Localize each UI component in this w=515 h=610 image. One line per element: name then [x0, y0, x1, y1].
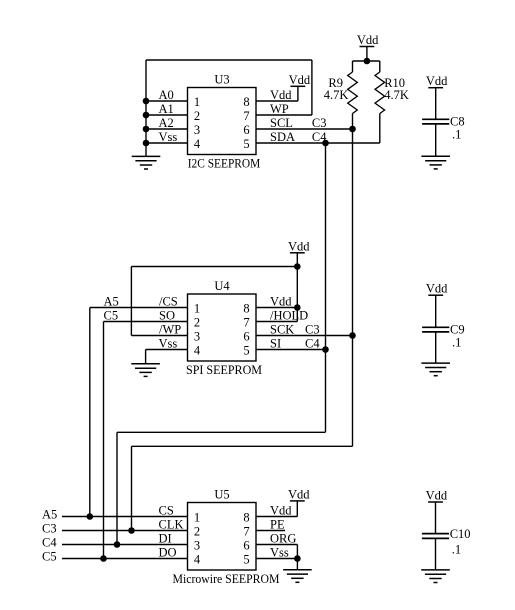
junction CS/A5 [87, 513, 94, 520]
svg-text:ORG: ORG [270, 532, 296, 546]
svg-text:DO: DO [159, 546, 177, 560]
svg-text:Vdd: Vdd [270, 504, 292, 518]
svg-text:SPI SEEPROM: SPI SEEPROM [186, 363, 262, 377]
power Vdd U3 [289, 73, 311, 87]
svg-text:SDA: SDA [270, 130, 295, 144]
svg-text:7: 7 [243, 109, 249, 123]
svg-text:Vdd: Vdd [288, 487, 310, 501]
svg-text:SI: SI [270, 337, 281, 351]
ground C10 [421, 570, 450, 583]
svg-text:WP: WP [270, 102, 289, 116]
wire C9 top lead [435, 295, 437, 327]
svg-text:A5: A5 [104, 295, 119, 309]
svg-text:Vdd: Vdd [270, 295, 292, 309]
junction DI/C4 [114, 541, 121, 548]
svg-text:2: 2 [194, 109, 200, 123]
ground C8 [421, 156, 450, 169]
svg-text:U4: U4 [214, 279, 230, 293]
svg-text:C5: C5 [104, 309, 119, 323]
svg-text:SO: SO [159, 309, 175, 323]
svg-text:I2C SEEPROM: I2C SEEPROM [188, 157, 261, 171]
wire C8 bottom lead [435, 124, 437, 156]
wire net C5 vertical [103, 322, 105, 559]
svg-text:8: 8 [243, 95, 249, 109]
wire U5 pin3 DI net C4 [62, 544, 188, 546]
svg-text:DI: DI [159, 532, 172, 546]
svg-text:Vdd: Vdd [426, 74, 448, 88]
svg-text:Microwire SEEPROM: Microwire SEEPROM [173, 572, 280, 586]
wire U4 pin2 SO net C5 [104, 321, 188, 323]
svg-text:Vdd: Vdd [357, 33, 379, 47]
svg-text:1: 1 [194, 95, 200, 109]
svg-text:7: 7 [243, 316, 249, 330]
resistor R10 bottom lead [379, 114, 381, 144]
svg-text:A0: A0 [159, 88, 174, 102]
power Vdd U4 [288, 239, 310, 253]
wire U3 pin2 A1 [146, 114, 188, 116]
wire /WP vertical [130, 267, 132, 336]
svg-text:3: 3 [194, 123, 200, 137]
junction SI/C4 bus [322, 346, 329, 353]
svg-text:8: 8 [243, 302, 249, 316]
svg-text:1: 1 [194, 511, 200, 525]
svg-text:Vdd: Vdd [426, 489, 448, 503]
svg-text:6: 6 [243, 330, 249, 344]
wire U4 pin4 Vss [146, 349, 188, 351]
wire U5 pin4 DO net C5 [62, 558, 188, 560]
svg-text:SCL: SCL [270, 116, 293, 130]
svg-text:Vss: Vss [159, 337, 178, 351]
svg-text:U5: U5 [214, 488, 229, 502]
junction SCK/C3 bus [349, 332, 356, 339]
svg-text:C3: C3 [305, 323, 320, 337]
svg-text:C3: C3 [42, 522, 57, 536]
wire U4 Vss down [145, 350, 147, 364]
svg-text:Vss: Vss [159, 130, 178, 144]
wire resistor top rail [353, 60, 380, 62]
svg-text:/WP: /WP [159, 323, 181, 337]
wire net C3 vertical to U5 [131, 446, 133, 530]
ground U3 [132, 156, 161, 169]
junction CLK/C3 [128, 527, 135, 534]
wire Vdd stem resistors [366, 47, 368, 62]
svg-text:3: 3 [194, 330, 200, 344]
wire U4 pin1 /CS net A5 [90, 307, 188, 309]
wire C10 top lead [435, 502, 437, 534]
wire WP net right vertical [311, 60, 313, 115]
power Vdd C10 [426, 489, 448, 503]
junction A0/bus [143, 98, 150, 105]
svg-text:.1: .1 [452, 543, 461, 557]
U3 chip body [188, 88, 257, 155]
wire U5 pin1 CS net A5 [62, 516, 188, 518]
junction SCL/R9 [349, 126, 356, 133]
svg-text:3: 3 [194, 539, 200, 553]
junction Vdd rail [294, 263, 301, 270]
wire U4 pin8 Vdd [256, 307, 297, 309]
svg-text:5: 5 [243, 553, 249, 567]
svg-text:C10: C10 [450, 527, 471, 541]
wire U5 pin8 Vdd [256, 516, 297, 518]
wire U3 pin5 SDA / net C4 [256, 142, 380, 144]
node bus: U3 left ground bus [145, 60, 147, 144]
wire U4 pin3 /WP [131, 335, 187, 337]
wire U3 pin3 A2 [146, 128, 188, 130]
wire net A5 vertical [89, 308, 91, 517]
wire U3 pin7 WP [256, 114, 312, 116]
svg-text:A5: A5 [42, 508, 57, 522]
wire C8 top lead [435, 88, 437, 120]
wire Vdd stem U4 down to pin7 [296, 253, 298, 322]
svg-text:4: 4 [194, 344, 201, 358]
power Vdd resistors [357, 33, 379, 47]
wire U3 pin8 Vdd [256, 100, 298, 102]
wire Vdd stem U3 [297, 86, 299, 101]
wire U3 pin4 Vss [146, 142, 188, 144]
svg-text:C4: C4 [305, 337, 320, 351]
svg-text:1: 1 [194, 302, 200, 316]
ground C9 [421, 363, 450, 376]
wire Vdd stem U5 [296, 501, 298, 517]
wire net C4 horizontal jog [117, 431, 326, 433]
svg-text:4.7K: 4.7K [384, 88, 409, 102]
wire U4 pin5 SI net C4 [256, 349, 326, 351]
wire U5 pin5 Vss [256, 558, 297, 560]
junction pin8 Vdd [294, 304, 301, 311]
wire U5 pin2 CLK net C3 [62, 530, 188, 532]
wire U3 pin6 SCL / net C3 [256, 128, 353, 130]
svg-text:/CS: /CS [159, 295, 178, 309]
svg-text:SCK: SCK [270, 323, 294, 337]
svg-text:.1: .1 [452, 335, 461, 349]
wire U3 pin1 A0 [146, 100, 188, 102]
U5 chip body [188, 503, 257, 571]
svg-text:8: 8 [243, 511, 249, 525]
wire bus to ground [145, 143, 147, 156]
wire U4 pin6 SCK net C3 [256, 335, 353, 337]
wire U4 pin7 /HOLD [256, 321, 297, 323]
wire net C4 vertical to U5 [116, 432, 118, 544]
ground U4 [131, 364, 160, 377]
svg-text:Vdd: Vdd [270, 88, 292, 102]
resistor R9 [348, 72, 358, 114]
svg-text:Vdd: Vdd [426, 282, 448, 296]
wire ORG down to ground [296, 545, 298, 570]
power Vdd U5 [288, 487, 310, 501]
svg-text:Vdd: Vdd [288, 239, 310, 253]
capacitor C9 [422, 327, 449, 332]
resistor R10 top lead [379, 61, 381, 72]
resistor R10 [375, 72, 385, 114]
svg-text:C8: C8 [450, 115, 465, 129]
U4 chip body [188, 294, 257, 361]
junction A2/bus [143, 126, 150, 133]
wire C10 bottom lead [435, 538, 437, 570]
svg-text:/HOLD: /HOLD [270, 309, 308, 323]
ground U5 [283, 570, 312, 583]
power Vdd C9 [426, 282, 448, 296]
svg-text:C3: C3 [312, 116, 327, 130]
svg-text:4.7K: 4.7K [324, 88, 349, 102]
svg-text:A2: A2 [159, 116, 174, 130]
svg-text:CS: CS [159, 504, 174, 518]
junction Vdd/rail [364, 58, 371, 65]
wire net C4 vertical bus [325, 143, 327, 432]
svg-text:4: 4 [194, 553, 201, 567]
svg-text:Vdd: Vdd [289, 73, 311, 87]
junction DO/C5 [100, 555, 107, 562]
svg-text:C5: C5 [42, 550, 57, 564]
power Vdd C8 [426, 74, 448, 88]
svg-text:2: 2 [194, 525, 200, 539]
junction Vss/ORG/gnd [294, 555, 301, 562]
wire U5 pin7 PE stub [256, 530, 285, 532]
svg-text:CLK: CLK [159, 518, 184, 532]
svg-text:7: 7 [243, 525, 249, 539]
svg-text:6: 6 [243, 123, 249, 137]
svg-text:U3: U3 [214, 73, 229, 87]
wire net C3 horizontal jog [132, 445, 353, 447]
junction Vss/bus [143, 140, 150, 147]
svg-text:A1: A1 [159, 102, 174, 116]
resistor R9 bottom lead [352, 114, 354, 130]
junction A1/bus [143, 112, 150, 119]
svg-text:PE: PE [270, 518, 285, 532]
wire U4 Vdd rail to /WP [131, 266, 297, 268]
wire WP net top horizontal [146, 59, 312, 61]
svg-text:5: 5 [243, 137, 249, 151]
svg-text:.1: .1 [452, 128, 461, 142]
svg-text:2: 2 [194, 316, 200, 330]
svg-text:C4: C4 [42, 536, 57, 550]
wire U5 pin6 ORG [256, 544, 297, 546]
svg-text:Vss: Vss [270, 546, 289, 560]
svg-text:5: 5 [243, 344, 249, 358]
capacitor C8 [422, 119, 449, 124]
svg-text:6: 6 [243, 539, 249, 553]
capacitor C10 [422, 534, 449, 539]
svg-text:4: 4 [194, 137, 201, 151]
junction SDA/C4 bus [322, 140, 329, 147]
wire C9 bottom lead [435, 332, 437, 363]
resistor R9 top lead [352, 61, 354, 72]
wire net C3 vertical bus [352, 129, 354, 446]
